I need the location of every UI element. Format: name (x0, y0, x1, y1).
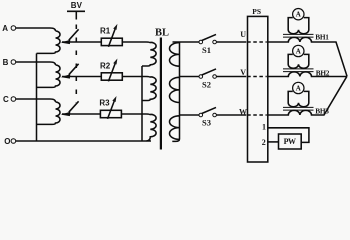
wire R3 to BL (121, 114, 150, 115)
wire S2 to PS (216, 76, 246, 78)
wire BL to S3 (180, 114, 200, 116)
svg-text:V: V (240, 68, 246, 77)
svg-text:A: A (2, 24, 8, 33)
svg-text:A: A (296, 48, 301, 56)
svg-text:R3: R3 (99, 99, 110, 108)
svg-text:BH1: BH1 (315, 33, 329, 42)
svg-text:PW: PW (284, 137, 296, 146)
wire PS to BH3 and primary winding (268, 76, 347, 115)
switch S2 (199, 75, 203, 79)
wire PS pin2 to PW (268, 141, 278, 143)
wire neutral O (16, 140, 151, 142)
svg-text:2: 2 (262, 138, 266, 147)
svg-text:S2: S2 (202, 80, 211, 90)
transformer BL secondary line (172, 42, 179, 141)
transformer BH2 secondary (288, 54, 309, 68)
svg-text:A: A (296, 85, 301, 93)
transformer BL primary winding c (147, 114, 157, 141)
svg-text:1: 1 (262, 123, 266, 132)
svg-text:A: A (296, 11, 301, 19)
svg-text:PS: PS (252, 7, 261, 16)
variac winding TB (phase B) (37, 65, 61, 87)
BV bar (67, 10, 85, 12)
svg-text:O: O (4, 137, 10, 146)
wire S3 to PS (216, 114, 246, 116)
wire PS to BH1 and primary winding (268, 37, 347, 76)
variac winding TA (phase A) (37, 31, 61, 53)
wiper arrow phase C (69, 101, 79, 112)
wire wiper C to R3 (62, 113, 100, 115)
dashed line W in PS (247, 114, 267, 116)
wiper arrow phase A (69, 29, 79, 40)
svg-text:R1: R1 (100, 27, 111, 36)
svg-text:C: C (3, 95, 9, 104)
ammeter PA3 (293, 82, 304, 93)
svg-text:S3: S3 (202, 118, 211, 128)
switch S1 (199, 40, 203, 44)
wire phase A to variac (16, 28, 56, 31)
svg-text:R2: R2 (100, 61, 111, 70)
svg-text:BV: BV (71, 1, 83, 10)
svg-text:B: B (3, 58, 9, 67)
wire phase C to variac (16, 99, 56, 102)
wire R1 to BL (122, 42, 150, 43)
ammeter PA2 (293, 45, 304, 56)
transformer BH3 core (283, 107, 314, 110)
neutral bus of variac (36, 53, 38, 141)
wire BL to S2 (180, 76, 200, 78)
wire PS to BH2 and primary winding (268, 72, 347, 77)
transformer BH2 core (283, 69, 314, 72)
transformer BL primary winding a (142, 42, 156, 66)
dashed line V in PS (247, 76, 267, 78)
transformer BL primary winding b (142, 77, 156, 101)
transformer BH1 core (283, 34, 314, 37)
wiper arrow phase B (69, 64, 79, 75)
transformer BL secondary winding c (170, 116, 180, 140)
wire R2 to BL (122, 77, 150, 78)
ammeter PA1 (293, 9, 304, 20)
wire wiper A to R1 (62, 41, 101, 43)
wire wiper B to R2 (62, 76, 101, 78)
wire S1 to PS (216, 41, 246, 43)
transformer BH1 secondary (288, 18, 309, 34)
switch S3 (199, 113, 203, 117)
wire PS pin1 to PW (268, 128, 309, 143)
BL primary neutral bus (141, 66, 143, 141)
svg-text:S1: S1 (202, 45, 211, 55)
wire BL to S1 (173, 41, 200, 43)
transformer BL secondary winding a (170, 43, 180, 67)
dashed line U in PS (247, 41, 267, 43)
transformer BL secondary winding b (170, 77, 180, 102)
box PW (279, 134, 302, 149)
BV shaft (75, 11, 77, 19)
box PS (248, 16, 268, 162)
transformer BH3 secondary (288, 91, 309, 106)
wire phase B to variac (16, 62, 56, 65)
svg-text:U: U (240, 30, 246, 39)
transformer BL core (160, 38, 162, 150)
BV dashed control link (75, 20, 77, 104)
variac winding TC (phase C) (37, 102, 61, 124)
svg-text:BL: BL (155, 27, 169, 38)
svg-text:W: W (239, 107, 247, 116)
